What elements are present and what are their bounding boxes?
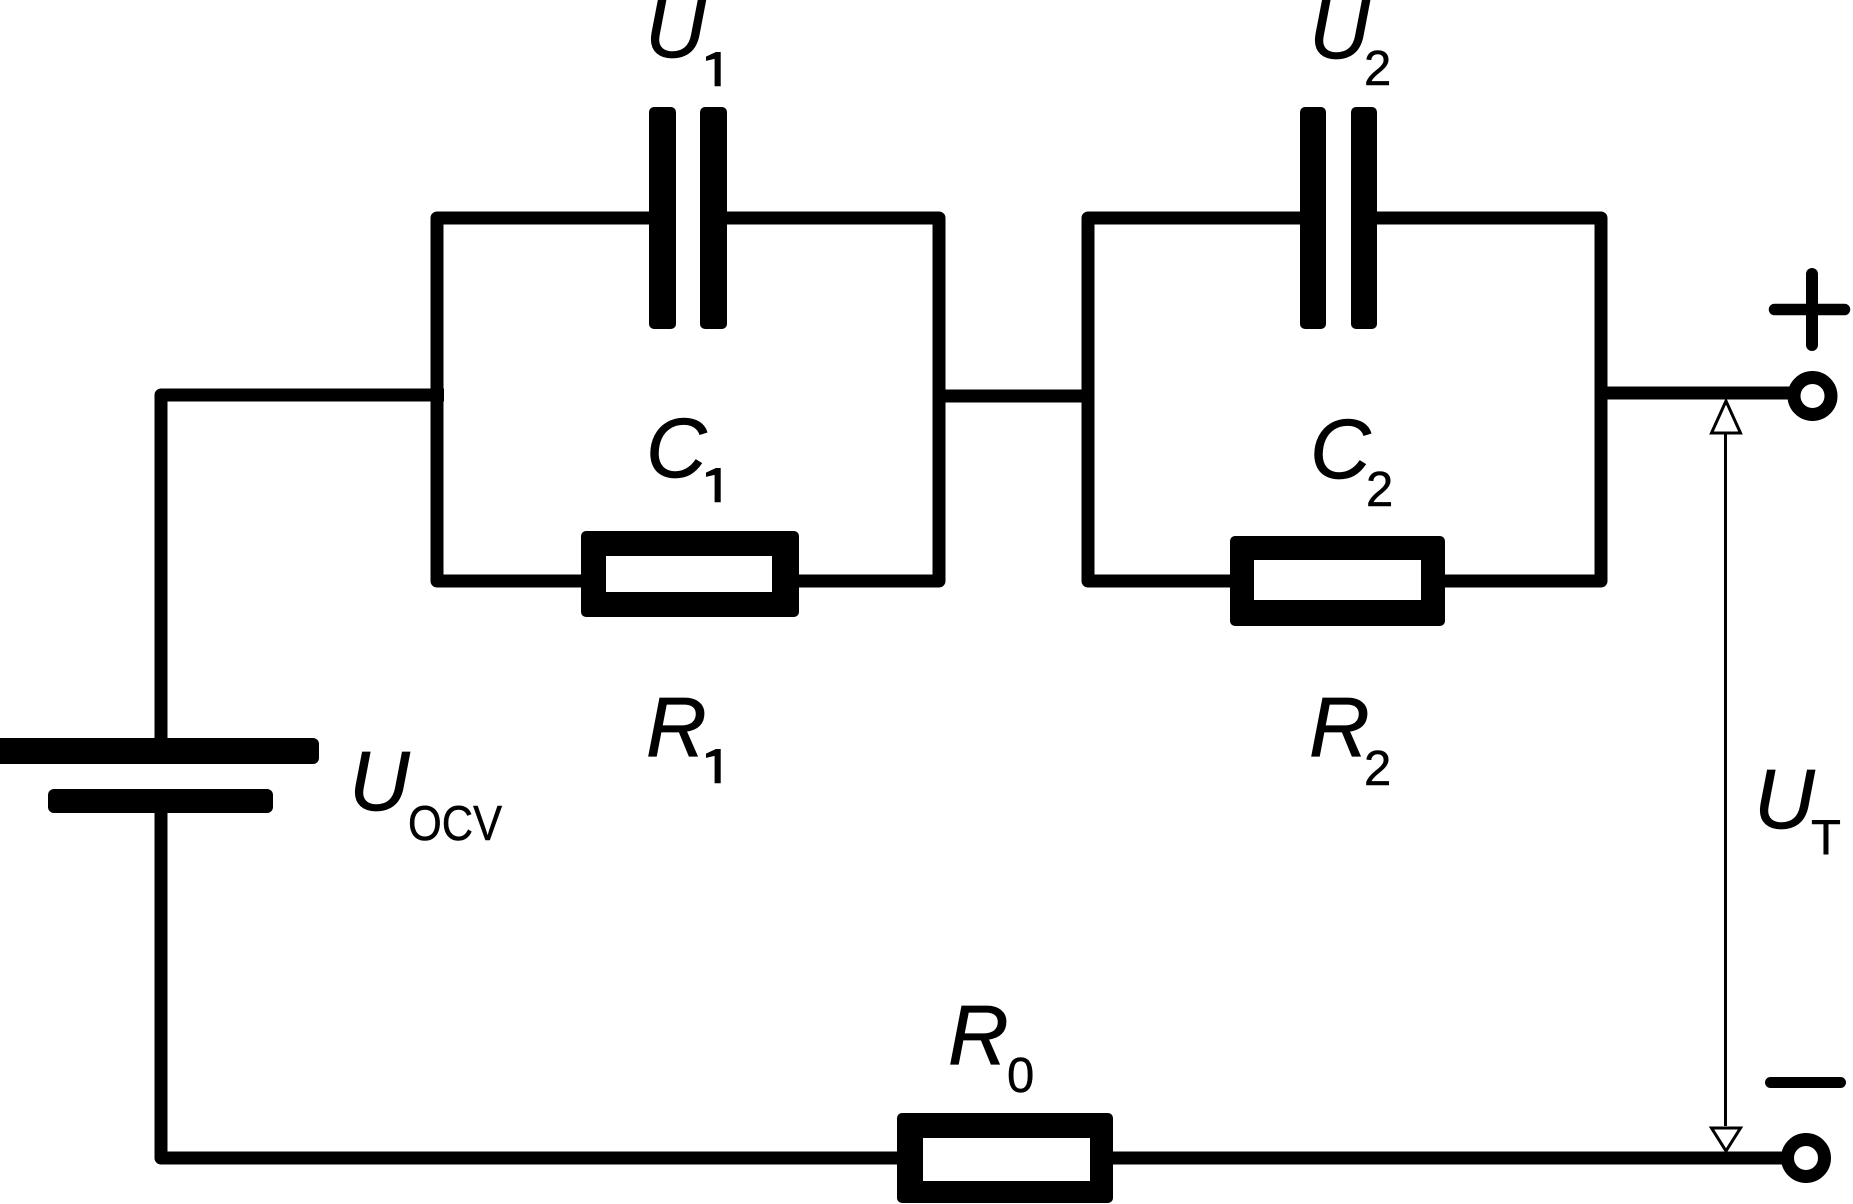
label C1	[646, 401, 721, 502]
label R1	[646, 680, 721, 783]
svg-text:R: R	[646, 680, 707, 774]
wire box2 to top terminal	[1601, 387, 1790, 400]
svg-text:OCV: OCV	[408, 797, 502, 851]
bottom terminal	[1788, 1140, 1825, 1177]
wire RC box2 left loop	[1088, 218, 1300, 581]
svg-text:T: T	[1811, 811, 1841, 865]
capacitor C2 plates	[1300, 107, 1377, 329]
svg-text:R: R	[948, 988, 1009, 1082]
wire between box1 and box2	[939, 390, 1088, 403]
resistor R1	[581, 531, 799, 617]
wire battery bottom to resistor R0	[161, 806, 900, 1158]
wire RC box1 right loop	[727, 218, 939, 581]
label R2	[1309, 680, 1391, 796]
resistor R2	[1230, 536, 1445, 626]
label C2	[1310, 402, 1393, 517]
svg-text:C: C	[1310, 402, 1372, 496]
label R0	[948, 988, 1034, 1103]
svg-text:U: U	[349, 734, 411, 828]
svg-text:0: 0	[1007, 1049, 1034, 1103]
battery U_OCV plates	[0, 738, 319, 813]
label U_OCV	[349, 734, 502, 851]
svg-text:U: U	[1309, 0, 1371, 76]
label U1	[645, 0, 721, 86]
svg-text:U: U	[1754, 752, 1816, 846]
svg-text:2: 2	[1364, 742, 1391, 796]
wire R0 to bottom terminal	[1110, 1152, 1783, 1165]
svg-text:C: C	[646, 401, 708, 495]
wire RC box1 left loop	[437, 218, 649, 581]
svg-text:U: U	[645, 0, 707, 75]
svg-text:2: 2	[1366, 463, 1393, 517]
top terminal	[1794, 378, 1831, 415]
voltage arrow U_T	[1712, 401, 1741, 1151]
svg-text:2: 2	[1364, 42, 1391, 96]
minus sign	[1771, 1077, 1841, 1088]
label U_T	[1754, 752, 1841, 865]
wire battery top to RC box 1	[161, 395, 444, 744]
label U2	[1309, 0, 1391, 96]
capacitor C1 plates	[649, 107, 727, 329]
wire RC box2 right loop	[1377, 218, 1601, 581]
resistor R0	[897, 1113, 1113, 1203]
svg-text:R: R	[1309, 680, 1370, 774]
plus sign	[1775, 274, 1845, 345]
